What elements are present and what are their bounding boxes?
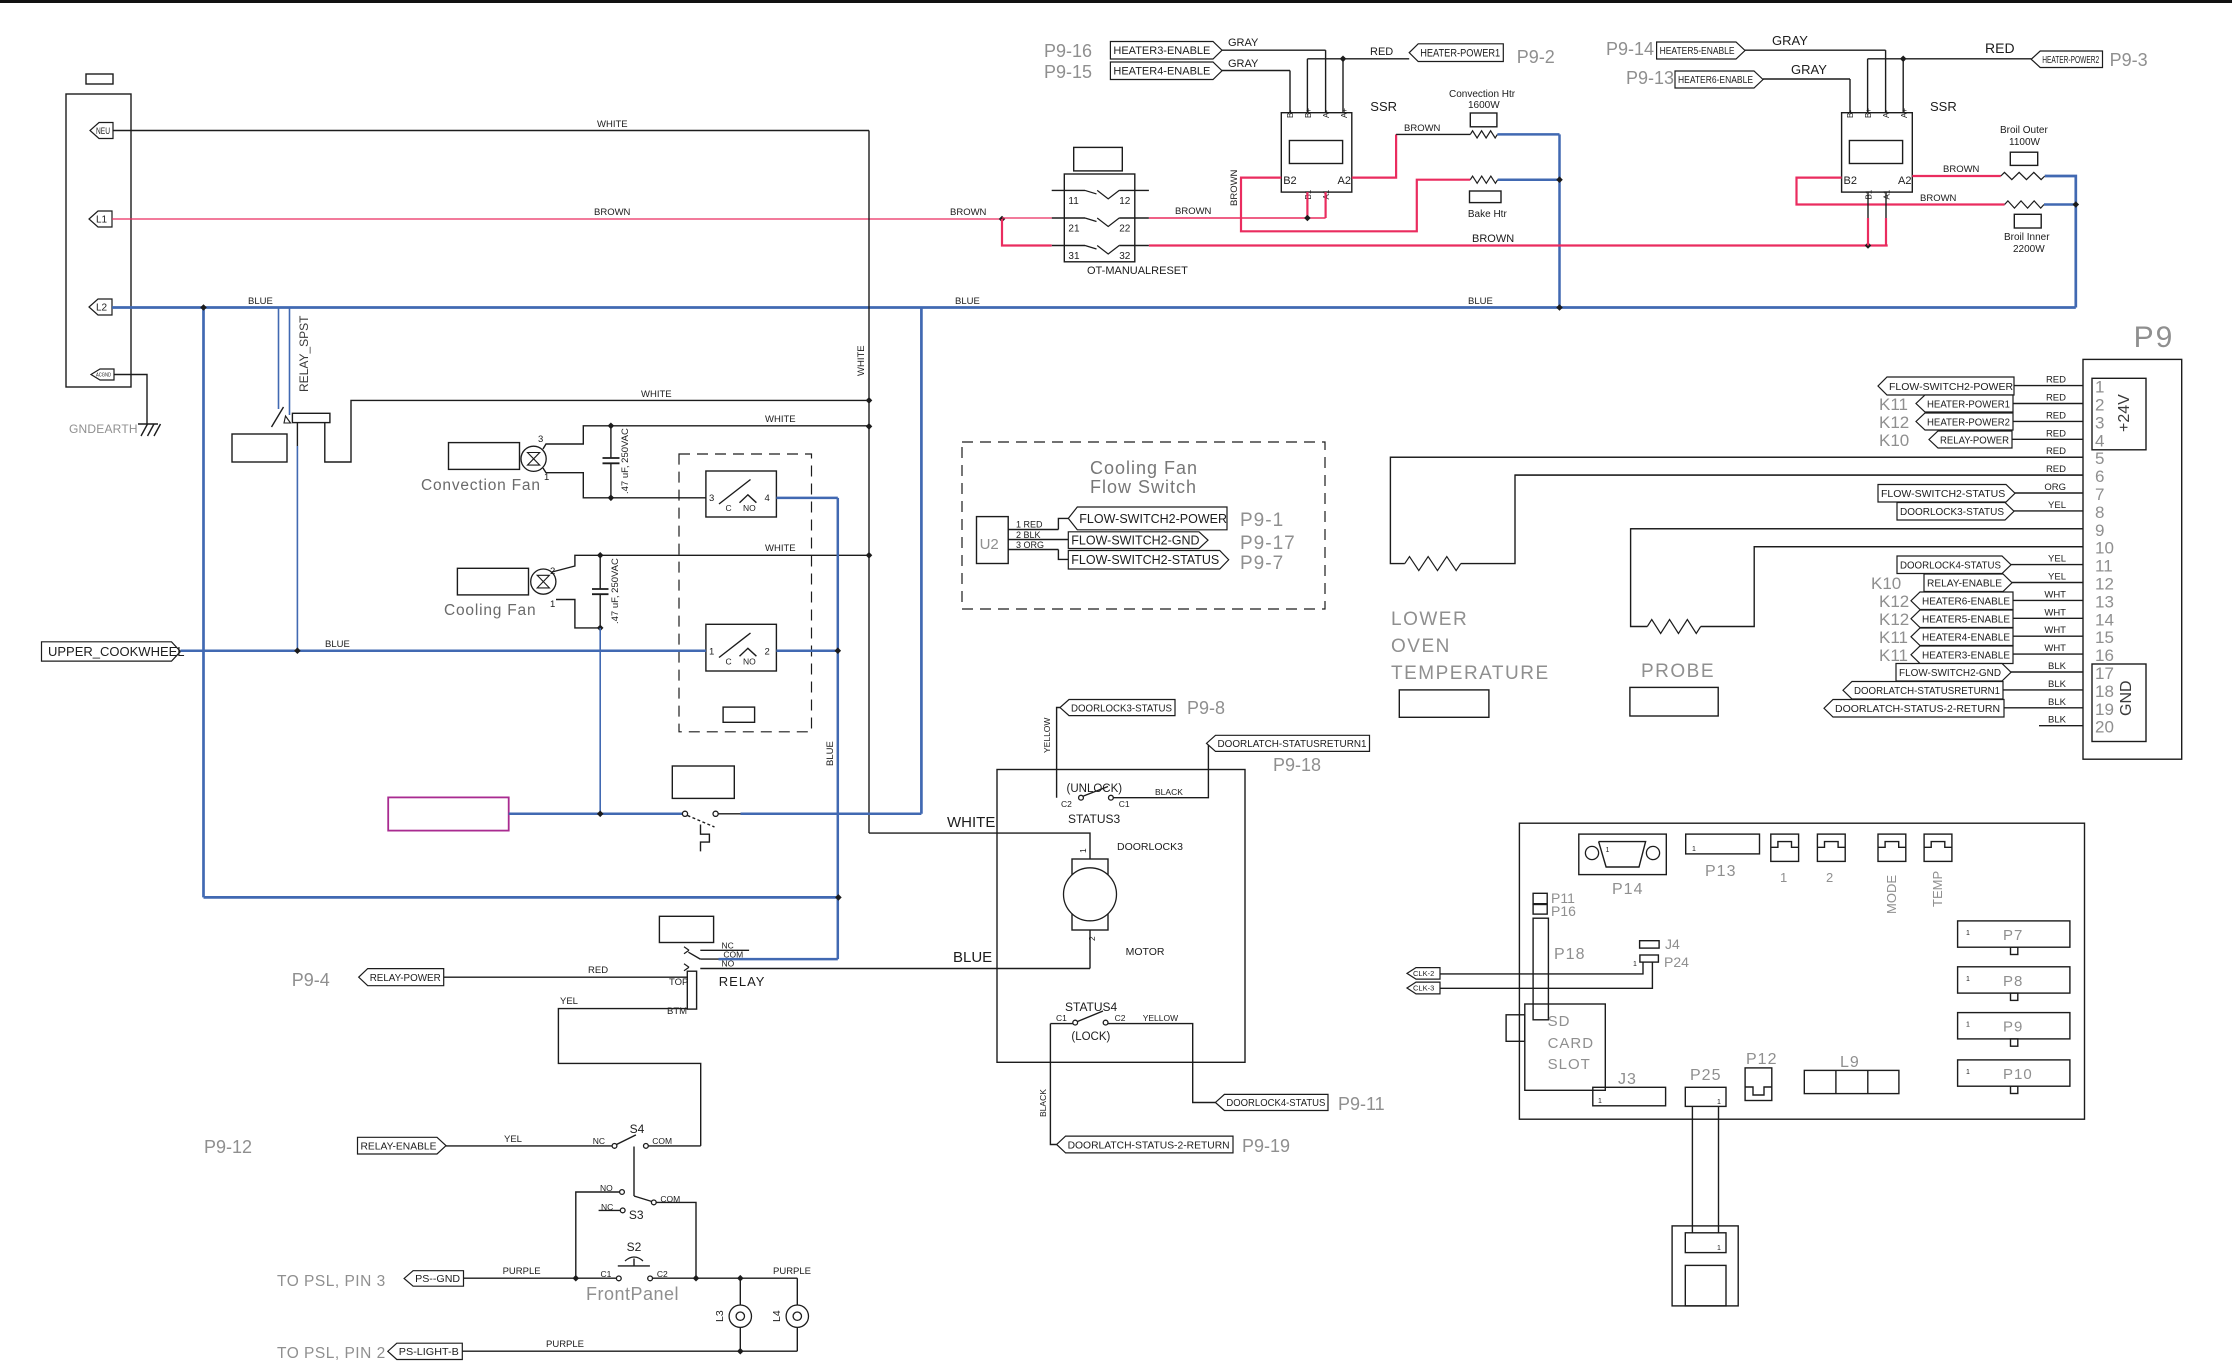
svg-text:A2: A2 xyxy=(1898,175,1911,187)
wire purple ps-gnd xyxy=(464,1277,617,1279)
svg-text:Bake Htr: Bake Htr xyxy=(1468,209,1508,220)
wire from pressure switch to blue riser xyxy=(718,813,740,815)
heater Broil Inner xyxy=(2005,201,2044,208)
svg-text:YELLOW: YELLOW xyxy=(1042,718,1052,753)
svg-text:17: 17 xyxy=(2095,664,2114,683)
junction white y426 xyxy=(866,423,873,430)
svg-text:YEL: YEL xyxy=(504,1134,522,1145)
wire fan pin1 xyxy=(556,600,600,628)
svg-text:19: 19 xyxy=(2095,700,2114,719)
wire black status4 left xyxy=(1050,1023,1073,1025)
svg-text:PURPLE: PURPLE xyxy=(503,1266,541,1277)
svg-text:HEATER5-ENABLE: HEATER5-ENABLE xyxy=(1660,46,1735,57)
svg-text:K11: K11 xyxy=(1879,395,1908,414)
wire yellow doorlock3-status xyxy=(1057,708,1060,798)
svg-text:BLACK: BLACK xyxy=(1038,1089,1048,1117)
svg-text:P18: P18 xyxy=(1554,946,1585,963)
svg-text:2: 2 xyxy=(2095,396,2104,415)
terminal L2 xyxy=(89,299,112,315)
wire blue vertical to relay COM xyxy=(837,498,840,959)
junction cap top xyxy=(608,423,615,430)
svg-text:RED: RED xyxy=(2046,393,2066,404)
label HEATER-POWER2 xyxy=(2031,51,2102,68)
connector P9 outer box xyxy=(2083,359,2182,759)
svg-text:GRAY: GRAY xyxy=(1772,33,1808,48)
connector P8 xyxy=(1958,967,2070,993)
svg-text:P9-12: P9-12 xyxy=(204,1137,252,1157)
svg-text:1: 1 xyxy=(1966,1022,1970,1029)
wire blue drop to cookwheel net xyxy=(599,628,601,814)
wire blue convection to riser xyxy=(1497,133,1559,136)
wire P9 pin 7 xyxy=(2015,492,2083,494)
wire U2 pin1 to label xyxy=(1058,518,1068,529)
svg-text:BLUE: BLUE xyxy=(248,296,273,307)
control board outline xyxy=(1519,823,2084,1119)
svg-text:BROWN: BROWN xyxy=(1943,164,1980,175)
connector jack 1 xyxy=(1771,834,1799,861)
svg-text:FLOW-SWITCH2-POWER: FLOW-SWITCH2-POWER xyxy=(1889,381,2013,393)
svg-text:P9-13: P9-13 xyxy=(1626,68,1674,88)
svg-text:WHITE: WHITE xyxy=(765,414,796,425)
svg-text:C2: C2 xyxy=(1061,799,1072,809)
svg-text:TO PSL, PIN 2: TO PSL, PIN 2 xyxy=(277,1345,386,1362)
svg-text:3: 3 xyxy=(538,434,543,445)
svg-text:RED: RED xyxy=(2046,428,2066,439)
wire gray heater6 xyxy=(1763,78,1850,80)
relay blade xyxy=(688,952,700,959)
svg-text:C1: C1 xyxy=(1056,1013,1067,1023)
svg-text:2200W: 2200W xyxy=(2013,244,2045,255)
svg-text:B1: B1 xyxy=(1865,189,1874,199)
wire S4 to S3 link xyxy=(633,1147,635,1197)
wire SSR2 B2 lead brown xyxy=(1797,178,2005,205)
svg-text:P24: P24 xyxy=(1664,954,1689,970)
wire L2 blue bus xyxy=(112,306,2076,309)
wire S4 com xyxy=(648,1145,701,1147)
label CLK-3 xyxy=(1407,982,1440,994)
svg-text:FLOW-SWITCH2-POWER: FLOW-SWITCH2-POWER xyxy=(1079,512,1227,526)
svg-text:YEL: YEL xyxy=(2048,572,2066,583)
wire clk-2 xyxy=(1440,962,1643,974)
wire yellow status4 right xyxy=(1108,1024,1215,1103)
svg-text:OT-MANUALRESET: OT-MANUALRESET xyxy=(1087,265,1188,277)
svg-text:FLOW-SWITCH2-GND: FLOW-SWITCH2-GND xyxy=(1071,534,1199,548)
svg-text:2 BLK: 2 BLK xyxy=(1016,530,1041,540)
svg-text:FrontPanel: FrontPanel xyxy=(586,1284,679,1304)
wire L1 branch to contacts xyxy=(999,216,1006,223)
svg-text:SSR: SSR xyxy=(1370,99,1397,114)
contact row 31-32 xyxy=(1052,245,1085,247)
svg-text:DOORLOCK3-STATUS: DOORLOCK3-STATUS xyxy=(1071,702,1172,714)
wire P9 pin 18 xyxy=(2003,689,2083,691)
label FLOW-SWITCH2-STATUS module xyxy=(1068,551,1228,570)
wire clk-3 xyxy=(1440,962,1652,988)
svg-text:P9-7: P9-7 xyxy=(1240,553,1284,574)
svg-text:WHT: WHT xyxy=(2044,643,2066,654)
svg-text:K10: K10 xyxy=(1879,431,1909,450)
svg-text:WHT: WHT xyxy=(2044,589,2066,600)
svg-text:12: 12 xyxy=(1119,196,1131,207)
svg-text:RED: RED xyxy=(1985,40,2015,56)
svg-text:PS-LIGHT-B: PS-LIGHT-B xyxy=(399,1346,459,1358)
wire SSR1 pin A+ red xyxy=(1342,59,1344,113)
svg-text:U2: U2 xyxy=(980,536,999,553)
junction blue riser L2 xyxy=(1556,304,1563,311)
svg-text:WHITE: WHITE xyxy=(765,543,796,554)
svg-text:FLOW-SWITCH2-GND: FLOW-SWITCH2-GND xyxy=(1899,667,2001,679)
svg-text:TO PSL, PIN 3: TO PSL, PIN 3 xyxy=(277,1273,386,1290)
svg-text:MODE: MODE xyxy=(1884,875,1899,914)
wire blue switch2 to vertical xyxy=(776,649,837,652)
svg-text:15: 15 xyxy=(2095,628,2114,647)
svg-text:HEATER-POWER1: HEATER-POWER1 xyxy=(1927,398,2010,410)
svg-text:1: 1 xyxy=(2095,378,2104,397)
label DOORLOCK3-STATUS pin8 xyxy=(1897,503,2014,521)
svg-text:Cooling Fan: Cooling Fan xyxy=(1090,458,1198,478)
svg-text:16: 16 xyxy=(2095,646,2114,665)
wire SSR1 pin A- gray xyxy=(1325,50,1327,112)
svg-text:HEATER-POWER2: HEATER-POWER2 xyxy=(2042,55,2099,66)
svg-text:22: 22 xyxy=(1119,224,1131,235)
label FLOW-SWITCH2-GND pin17 xyxy=(1896,664,2011,682)
wire gray heater3 xyxy=(1222,49,1326,51)
annotation box above pressure switch xyxy=(672,766,734,798)
svg-text:BLUE: BLUE xyxy=(953,949,992,966)
svg-text:DOORLOCK3-STATUS: DOORLOCK3-STATUS xyxy=(1900,506,2004,518)
wire P9 pin 4 xyxy=(2012,438,2083,440)
svg-text:P9-8: P9-8 xyxy=(1187,698,1225,718)
relay_spst blade xyxy=(272,407,284,427)
wire P9 pin 8 xyxy=(2014,510,2083,512)
svg-text:5: 5 xyxy=(2095,449,2104,468)
svg-text:2: 2 xyxy=(1087,936,1097,941)
svg-text:BROWN: BROWN xyxy=(1472,233,1514,245)
svg-text:YELLOW: YELLOW xyxy=(1143,1013,1178,1023)
svg-text:C1: C1 xyxy=(1119,799,1130,809)
label FLOW-SWITCH2-STATUS pin7 xyxy=(1878,485,2015,503)
svg-text:BROWN: BROWN xyxy=(1404,123,1441,134)
wire black status3 to return label xyxy=(1113,743,1208,797)
junction white y400 xyxy=(866,397,873,404)
switch S-upper blade xyxy=(719,480,751,505)
svg-text:BLACK: BLACK xyxy=(1155,787,1183,797)
svg-text:WHT: WHT xyxy=(2044,607,2066,618)
wire P9 pin 10 xyxy=(1754,546,2083,548)
svg-text:A+: A+ xyxy=(1900,108,1909,118)
junction blue x838 cookwheel xyxy=(835,647,842,654)
svg-text:BLUE: BLUE xyxy=(825,741,836,766)
svg-text:L9: L9 xyxy=(1840,1054,1860,1071)
svg-text:BROWN: BROWN xyxy=(1920,193,1957,204)
svg-text:GRAY: GRAY xyxy=(1228,58,1259,70)
svg-text:RELAY: RELAY xyxy=(719,974,766,989)
junction blue y814 xyxy=(597,811,604,818)
wire P9 pin 14 xyxy=(2013,617,2083,619)
svg-text:31: 31 xyxy=(1068,251,1080,262)
wire P9 pin 6 xyxy=(1515,474,2083,476)
wire blue from magenta box xyxy=(509,813,683,816)
cooling fan motor symbol xyxy=(531,569,556,594)
wire red heater-power2 xyxy=(1868,58,2032,60)
junction white y555 xyxy=(866,552,873,559)
wire blue cookwheel xyxy=(181,649,706,652)
wire P9 pin 1 xyxy=(2014,385,2083,387)
wire red heater-power1 xyxy=(1307,58,1409,60)
svg-text:YEL: YEL xyxy=(2048,500,2066,511)
wire P9 pin 11 xyxy=(2011,564,2083,566)
svg-text:B+: B+ xyxy=(1864,108,1873,118)
switch S-upper 3-C-NO-4 box xyxy=(706,471,777,517)
wire gray heater5 xyxy=(1745,49,1886,51)
svg-text:P9-4: P9-4 xyxy=(292,970,330,990)
svg-text:DOORLATCH-STATUSRETURN1: DOORLATCH-STATUSRETURN1 xyxy=(1854,685,2000,697)
label DOORLATCH-STATUS-2-RETURN xyxy=(1057,1136,1233,1153)
svg-text:P14: P14 xyxy=(1612,881,1643,898)
svg-text:STATUS4: STATUS4 xyxy=(1065,1000,1118,1014)
svg-text:DOORLOCK4-STATUS: DOORLOCK4-STATUS xyxy=(1900,560,2001,572)
relay contact NC xyxy=(684,947,689,954)
svg-text:P9-3: P9-3 xyxy=(2110,50,2148,70)
label DOORLOCK3-STATUS xyxy=(1060,700,1175,716)
wire P9 pin 2 xyxy=(2013,403,2083,405)
svg-text:P9-17: P9-17 xyxy=(1240,533,1296,554)
svg-text:C: C xyxy=(726,503,732,513)
junction L2 left vertical xyxy=(200,304,207,311)
svg-text:4: 4 xyxy=(765,493,770,504)
wire gray heater4 xyxy=(1222,70,1290,72)
svg-text:+24V: +24V xyxy=(2116,394,2133,432)
wire P9 pin 20 xyxy=(2039,725,2083,727)
svg-text:A-: A- xyxy=(1882,110,1891,118)
wire ACGND to earth xyxy=(114,375,147,425)
wire coil right leg to white net xyxy=(325,400,869,462)
svg-text:HEATER-POWER2: HEATER-POWER2 xyxy=(1927,416,2010,428)
svg-text:BLK: BLK xyxy=(2048,715,2067,726)
wire P9 pin 17 xyxy=(2011,671,2083,673)
svg-text:BLK: BLK xyxy=(2048,679,2067,690)
junction blue bottom bus xyxy=(835,894,842,901)
svg-text:WHITE: WHITE xyxy=(597,119,628,130)
annotation magenta box xyxy=(388,797,509,830)
connector P25 xyxy=(1685,1087,1726,1106)
svg-text:PURPLE: PURPLE xyxy=(546,1339,584,1350)
svg-text:P9-15: P9-15 xyxy=(1044,62,1092,82)
svg-text:4: 4 xyxy=(2095,431,2104,450)
svg-text:BROWN: BROWN xyxy=(950,207,987,218)
svg-text:K12: K12 xyxy=(1879,610,1909,629)
wire P9 pin 9 xyxy=(1631,528,2083,530)
svg-text:1: 1 xyxy=(1966,976,1970,983)
svg-text:DOORLATCH-STATUS-2-RETURN: DOORLATCH-STATUS-2-RETURN xyxy=(1068,1139,1230,1151)
wire U2 pin3 to label xyxy=(1058,550,1068,560)
convection fan box xyxy=(449,443,520,470)
svg-text:BLUE: BLUE xyxy=(325,639,350,650)
connector P24 xyxy=(1640,955,1659,962)
svg-text:(LOCK): (LOCK) xyxy=(1071,1031,1110,1043)
svg-text:B2: B2 xyxy=(1844,175,1857,187)
connector P9 +24V box xyxy=(2092,378,2146,450)
wire SSR1 B1 A1 leads xyxy=(1306,192,1308,218)
svg-text:1: 1 xyxy=(550,599,555,610)
label CLK-2 xyxy=(1407,968,1440,980)
svg-text:1 RED: 1 RED xyxy=(1016,520,1043,530)
svg-text:NEU: NEU xyxy=(96,126,110,137)
svg-text:B+: B+ xyxy=(1304,108,1313,118)
svg-text:NO: NO xyxy=(722,959,735,969)
svg-text:HEATER3-ENABLE: HEATER3-ENABLE xyxy=(1922,650,2010,662)
svg-text:1: 1 xyxy=(1717,1245,1721,1252)
svg-text:7: 7 xyxy=(2095,485,2104,504)
svg-text:Broil Outer: Broil Outer xyxy=(2000,125,2048,136)
svg-text:3 ORG: 3 ORG xyxy=(1016,540,1044,550)
wire brown contact32 to SSR2 xyxy=(1149,244,1888,246)
svg-text:RELAY-POWER: RELAY-POWER xyxy=(370,972,441,984)
label DOORLOCK4-STATUS pin11 xyxy=(1897,556,2011,574)
terminal ACGND xyxy=(91,369,114,380)
svg-text:GRAY: GRAY xyxy=(1228,37,1259,49)
relay coil xyxy=(687,971,696,1009)
label DOORLOCK4-STATUS xyxy=(1215,1094,1328,1110)
convection fan motor symbol xyxy=(521,446,546,471)
svg-text:BROWN: BROWN xyxy=(594,207,631,218)
wire yel relay enable xyxy=(446,1145,612,1147)
svg-text:HEATER3-ENABLE: HEATER3-ENABLE xyxy=(1113,45,1210,57)
wire P9 pin 12 xyxy=(2012,582,2083,584)
annotation box xyxy=(232,434,287,462)
svg-text:PROBE: PROBE xyxy=(1641,661,1715,682)
svg-text:6: 6 xyxy=(2095,467,2104,486)
svg-text:1: 1 xyxy=(1692,846,1696,853)
svg-text:Flow Switch: Flow Switch xyxy=(1090,477,1197,497)
svg-text:1: 1 xyxy=(1598,1098,1602,1105)
svg-text:11: 11 xyxy=(2095,557,2113,576)
svg-text:2: 2 xyxy=(1826,870,1833,885)
svg-text:3: 3 xyxy=(709,493,714,504)
svg-text:P10: P10 xyxy=(2003,1066,2033,1083)
solid-state relay SSR2 box xyxy=(1842,113,1913,192)
lamp L4 xyxy=(796,1278,798,1305)
wire fan pin1 xyxy=(543,468,706,498)
connector P9 header xyxy=(1958,1013,2070,1039)
overtemp OT-MANUALRESET top box xyxy=(1074,147,1123,171)
svg-text:PS--GND: PS--GND xyxy=(415,1273,460,1285)
svg-text:PURPLE: PURPLE xyxy=(773,1266,811,1277)
svg-text:DOORLOCK4-STATUS: DOORLOCK4-STATUS xyxy=(1226,1097,1325,1109)
svg-text:OVEN: OVEN xyxy=(1391,636,1451,657)
svg-text:1: 1 xyxy=(1780,870,1787,885)
svg-text:HEATER-POWER1: HEATER-POWER1 xyxy=(1420,48,1500,60)
svg-text:P16: P16 xyxy=(1551,903,1576,919)
svg-text:S3: S3 xyxy=(629,1208,644,1222)
connector P14 DB9 xyxy=(1579,834,1667,875)
svg-text:1: 1 xyxy=(1606,847,1610,854)
svg-text:13: 13 xyxy=(2095,592,2114,611)
svg-text:20: 20 xyxy=(2095,718,2114,737)
terminal L1 xyxy=(89,211,112,227)
svg-text:J3: J3 xyxy=(1618,1071,1637,1088)
pressure switch contacts xyxy=(682,811,687,816)
svg-text:L3: L3 xyxy=(714,1310,726,1322)
wire yel relay btm xyxy=(558,1009,700,1146)
svg-text:HEATER5-ENABLE: HEATER5-ENABLE xyxy=(1922,614,2010,626)
svg-text:RED: RED xyxy=(2046,410,2066,421)
svg-text:.47 uF, 250VAC: .47 uF, 250VAC xyxy=(610,558,621,624)
svg-text:BROWN: BROWN xyxy=(1229,169,1240,206)
wire SSR1 pin B- gray xyxy=(1289,71,1291,113)
sensor U2 box xyxy=(977,517,1009,564)
overtemp OT-MANUALRESET box xyxy=(1064,174,1135,262)
svg-text:GRAY: GRAY xyxy=(1791,62,1827,77)
svg-text:SLOT: SLOT xyxy=(1548,1056,1591,1073)
svg-text:K10: K10 xyxy=(1871,574,1901,593)
svg-text:C2: C2 xyxy=(1115,1013,1126,1023)
heater Bake Htr xyxy=(1470,176,1497,183)
svg-text:LOWER: LOWER xyxy=(1391,609,1468,630)
svg-text:YEL: YEL xyxy=(2048,554,2066,565)
svg-text:TEMP: TEMP xyxy=(1930,871,1945,907)
wire SSR1 A2 lead brown xyxy=(1352,134,1396,177)
svg-text:BLK: BLK xyxy=(2048,697,2067,708)
svg-text:A2: A2 xyxy=(1338,175,1351,187)
connector SD card slot xyxy=(1506,1015,1525,1042)
wire fan pin2 to white xyxy=(552,555,869,572)
wire SSR2 pin verticals xyxy=(1849,79,1851,113)
wire motor pin2 to relay NO xyxy=(1089,930,1091,969)
pressure switch step symbol xyxy=(701,825,710,852)
svg-text:P7: P7 xyxy=(2003,927,2023,944)
wire white vertical xyxy=(868,131,870,834)
svg-text:GNDEARTH: GNDEARTH xyxy=(69,422,138,436)
wire coil left leg to blue bus xyxy=(296,423,298,446)
svg-text:BLK: BLK xyxy=(2048,661,2067,672)
svg-text:P9-19: P9-19 xyxy=(1242,1136,1290,1156)
svg-text:NC: NC xyxy=(593,1136,605,1146)
svg-text:9: 9 xyxy=(2095,521,2104,540)
svg-text:FLOW-SWITCH2-STATUS: FLOW-SWITCH2-STATUS xyxy=(1071,553,1219,567)
svg-text:TEMPERATURE: TEMPERATURE xyxy=(1391,663,1550,684)
inductor L9 xyxy=(1804,1070,1899,1093)
svg-text:K12: K12 xyxy=(1879,413,1909,432)
svg-text:10: 10 xyxy=(2095,539,2114,558)
wire brown contact22 to SSR1 xyxy=(1149,217,1326,219)
svg-text:SSR: SSR xyxy=(1930,99,1957,114)
wire P9 pin 15 xyxy=(2013,635,2083,637)
svg-text:WHITE: WHITE xyxy=(856,345,867,376)
svg-text:P13: P13 xyxy=(1705,863,1736,880)
wire P9 pin 3 xyxy=(2013,420,2083,422)
junction cooling fan bottom xyxy=(597,625,604,632)
svg-text:K11: K11 xyxy=(1879,646,1908,665)
svg-text:1600W: 1600W xyxy=(1468,100,1500,111)
svg-text:RED: RED xyxy=(1370,46,1393,58)
connector J3 xyxy=(1593,1087,1666,1106)
cooling fan box xyxy=(457,568,528,595)
wire blue riser to L2 xyxy=(920,308,923,814)
connector P7 xyxy=(1958,921,2070,947)
connector MODE xyxy=(1878,834,1906,861)
svg-text:HEATER4-ENABLE: HEATER4-ENABLE xyxy=(1922,632,2010,644)
contact row 11-12 xyxy=(1052,189,1085,191)
svg-text:P9-16: P9-16 xyxy=(1044,41,1092,61)
svg-text:WHITE: WHITE xyxy=(947,814,995,831)
svg-text:MOTOR: MOTOR xyxy=(1126,946,1165,958)
svg-text:GND: GND xyxy=(2118,680,2135,716)
svg-text:P9-2: P9-2 xyxy=(1517,47,1555,67)
label DOORLATCH-STATUSRETURN1 xyxy=(1207,735,1370,751)
svg-text:L1: L1 xyxy=(96,215,108,226)
wire SSR1 pin B+ red xyxy=(1306,59,1308,113)
svg-text:1: 1 xyxy=(1633,961,1637,968)
